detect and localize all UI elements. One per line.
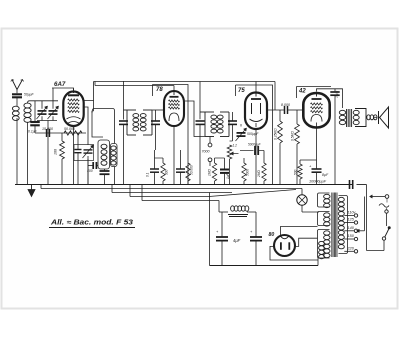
wire choke feed vertical — [218, 201, 220, 213]
trimmer box outline — [74, 145, 94, 161]
wire power left vertical — [209, 193, 211, 266]
tube 42 envelope — [303, 93, 329, 128]
wire screen down — [334, 95, 336, 184]
svg-text:50μμF: 50μμF — [24, 93, 34, 97]
wire grid return line — [35, 132, 86, 134]
IF transformer 2 secondary capacitor — [228, 120, 237, 122]
wire L2 top — [28, 101, 59, 103]
svg-text:50.000: 50.000 — [190, 165, 194, 175]
wire transformer bottom vertical — [317, 258, 319, 266]
IF transformer 1 secondary tuning capacitor — [151, 120, 160, 122]
mains connection arrow — [370, 196, 386, 198]
capacitor C1 50uuF antenna coupling — [12, 93, 22, 95]
capacitor 5000uuF — [240, 150, 254, 152]
resistor 500 bias 42 — [299, 160, 301, 164]
bus line 2 — [41, 188, 302, 190]
wire 78 cathode down — [173, 126, 175, 185]
tube 78 envelope — [164, 91, 184, 126]
svg-text:7000: 7000 — [202, 149, 210, 153]
svg-text:8.000: 8.000 — [281, 103, 290, 107]
phono jack terminal lower — [208, 158, 212, 162]
trimmer capacitor padder 2 — [52, 88, 54, 109]
capacitor 0.1uF grid — [34, 101, 36, 122]
power transformer core — [331, 193, 333, 258]
electrolytic capacitor 8uF — [316, 127, 318, 169]
capacitor 400 osc — [92, 162, 94, 169]
shield box tube 78 — [153, 85, 189, 185]
IF transformer 1 primary tuning capacitor — [119, 120, 128, 122]
resistor 100 cathode — [61, 133, 63, 141]
shield box tube 42 — [297, 86, 332, 88]
power transformer filament winding — [319, 241, 325, 245]
oscillator coil winding 1 — [98, 140, 110, 169]
oscillator top loop wire — [92, 109, 115, 144]
bus diagonal feed — [209, 190, 296, 197]
svg-text:50.000: 50.000 — [64, 127, 75, 131]
bus line 3 — [112, 192, 232, 194]
svg-text:0.25MΩ: 0.25MΩ — [274, 128, 278, 140]
filter choke — [219, 211, 228, 213]
voice coil — [367, 115, 370, 120]
output transformer secondary — [355, 109, 366, 127]
IF transformer 2 secondary winding — [220, 111, 229, 113]
coil L1 antenna primary — [12, 106, 19, 111]
svg-text:80: 80 — [269, 232, 275, 238]
resistor 2000 — [243, 158, 245, 163]
tube 6A7 grid cap wire — [52, 88, 74, 91]
svg-text:75: 75 — [238, 88, 245, 94]
resistor grid leak — [296, 110, 298, 124]
svg-text:78: 78 — [156, 87, 163, 93]
wire 6A7 cathode to bus — [73, 126, 75, 185]
output transformer core — [346, 109, 348, 127]
switch contact mid — [385, 210, 388, 213]
switch bottom wire — [367, 250, 385, 252]
filter capacitor 4uF first — [221, 212, 223, 237]
IF transformer 2 primary winding — [200, 111, 214, 113]
wire top line to 78 grid cap — [173, 86, 175, 91]
power transformer primary winding group 2 — [318, 212, 330, 226]
wire secondary to voice coil — [365, 116, 368, 118]
wire 80 filament right — [295, 238, 318, 246]
switch lever — [382, 237, 385, 240]
wire AVC drop — [274, 82, 276, 111]
ground symbol — [31, 185, 33, 190]
oscillator coil winding 2 — [111, 144, 118, 167]
capacitor 5000 plate 42 — [334, 89, 336, 92]
power transformer secondary winding — [339, 196, 348, 254]
resistor 0.5 Mohm grid 42 — [283, 110, 285, 122]
antenna — [12, 80, 23, 90]
bus line 4 — [130, 196, 209, 198]
wire 78 plate to IF2 primary — [185, 101, 205, 137]
wire 6A7 anode grid to oscillator — [84, 107, 88, 145]
capacitor screen 78 — [180, 150, 182, 169]
variable capacitor tuning osc — [77, 133, 79, 149]
capacitor 15.000 — [46, 129, 48, 137]
volume potentiometer — [227, 145, 232, 159]
mains plug terminal upper — [385, 195, 389, 199]
tube 75 internals — [255, 94, 257, 97]
svg-text:4μF: 4μF — [233, 238, 241, 243]
resistor 50.000 — [64, 131, 82, 135]
svg-text:6A7: 6A7 — [54, 81, 66, 88]
svg-text:140: 140 — [348, 226, 355, 230]
svg-text:1.2: 1.2 — [233, 144, 238, 148]
wire IF1 secondary to 78 grid — [152, 109, 164, 111]
svg-text:110v: 110v — [348, 211, 357, 215]
svg-text:All. ≈ Bac. mod. F 53: All. ≈ Bac. mod. F 53 — [50, 220, 133, 227]
tube 6A7 internals — [73, 89, 75, 94]
wire top to IF2 — [199, 82, 201, 120]
trimmer 500uuF diode load — [237, 132, 246, 134]
svg-text:42: 42 — [298, 89, 306, 95]
output transformer primary — [339, 110, 345, 114]
voltage selector arrow — [357, 230, 365, 232]
svg-text:5000: 5000 — [246, 169, 250, 176]
wire top line1 to 75 grid cap — [255, 82, 257, 93]
svg-text:0.1: 0.1 — [146, 172, 150, 177]
wire top line to IF1 — [123, 81, 125, 120]
svg-text:1000: 1000 — [335, 90, 340, 98]
tube 6A7 envelope — [63, 92, 83, 127]
svg-text:2MΩ: 2MΩ — [257, 170, 261, 178]
coil L2 antenna secondary — [24, 103, 31, 108]
svg-text:100: 100 — [54, 149, 58, 155]
trimmer capacitor padder 1 — [41, 101, 43, 109]
svg-text:10000μμF: 10000μμF — [309, 180, 327, 184]
capacitor osc unit lower — [77, 161, 79, 185]
capacitor 0.1 cathode 78 — [154, 150, 156, 169]
capacitor 1uF — [224, 158, 226, 169]
mains squiggle — [379, 204, 389, 208]
svg-text:500: 500 — [294, 169, 298, 175]
wire 80 anode top — [281, 227, 318, 236]
oscillator trimmer capacitor — [84, 149, 93, 151]
svg-text:500μμF: 500μμF — [247, 132, 259, 136]
tube 75 envelope — [245, 93, 267, 130]
switch vertical wire — [366, 185, 368, 251]
ground bus main — [15, 184, 353, 186]
capacitor 8.000 coupling — [284, 106, 286, 114]
speaker — [378, 111, 380, 124]
svg-text:8μF: 8μF — [322, 173, 329, 177]
wire to switch top — [353, 184, 367, 186]
wire trimmer bottoms to bus — [37, 120, 57, 122]
wire 42 plate top — [317, 89, 343, 108]
tube 42 internals — [316, 93, 318, 97]
filter capacitor 4uF second — [255, 212, 257, 237]
resistor 1 Mohm — [214, 158, 216, 163]
svg-text:125: 125 — [348, 218, 355, 222]
IF transformer 2 primary capacitor — [196, 120, 205, 122]
wire osc vertical — [93, 101, 95, 112]
resistor 0.25 Mohm plate 75 — [279, 110, 281, 121]
rectifier tube 80 envelope — [274, 235, 295, 256]
wire L1 bottom to ground bus — [16, 118, 18, 185]
phono jack terminal upper — [208, 143, 212, 147]
wire 80 filament left — [270, 246, 318, 260]
bottom rail power — [210, 265, 319, 267]
power transformer primary winding group 1 — [318, 193, 330, 207]
wire antenna to coil L1 — [16, 97, 18, 106]
svg-text:300: 300 — [165, 169, 169, 175]
resistor 300 cathode 78 — [162, 158, 164, 163]
svg-text:15.000: 15.000 — [42, 127, 53, 131]
secondary taps — [344, 215, 354, 217]
wire L2 bottom to bus — [27, 123, 29, 185]
top bus line 1 — [94, 81, 276, 83]
svg-text:0.5MΩ: 0.5MΩ — [291, 131, 295, 141]
wire 75 plate to coupling cap — [268, 109, 285, 111]
top bus line 2 — [95, 85, 174, 87]
wire plate 6A7 to top line — [84, 82, 94, 101]
IF transformer 1 primary winding — [124, 109, 137, 111]
svg-text:150: 150 — [348, 234, 355, 238]
resistor 2 Mohm — [263, 151, 265, 164]
svg-text:1MΩ: 1MΩ — [208, 169, 212, 176]
IF transformer 1 secondary winding — [143, 109, 152, 111]
tube 80 internals — [281, 236, 289, 239]
bus line 5 — [142, 200, 219, 202]
shield box tube 75 — [236, 85, 273, 185]
resistor screen 78 — [186, 163, 190, 181]
tube 78 internals — [173, 92, 175, 95]
svg-text:5000μμF: 5000μμF — [248, 143, 262, 147]
wire 75 cathode to bus — [255, 129, 257, 185]
power transformer primary winding group 3 — [318, 230, 330, 259]
svg-text:220: 220 — [347, 247, 355, 251]
pilot lamp — [297, 195, 307, 205]
